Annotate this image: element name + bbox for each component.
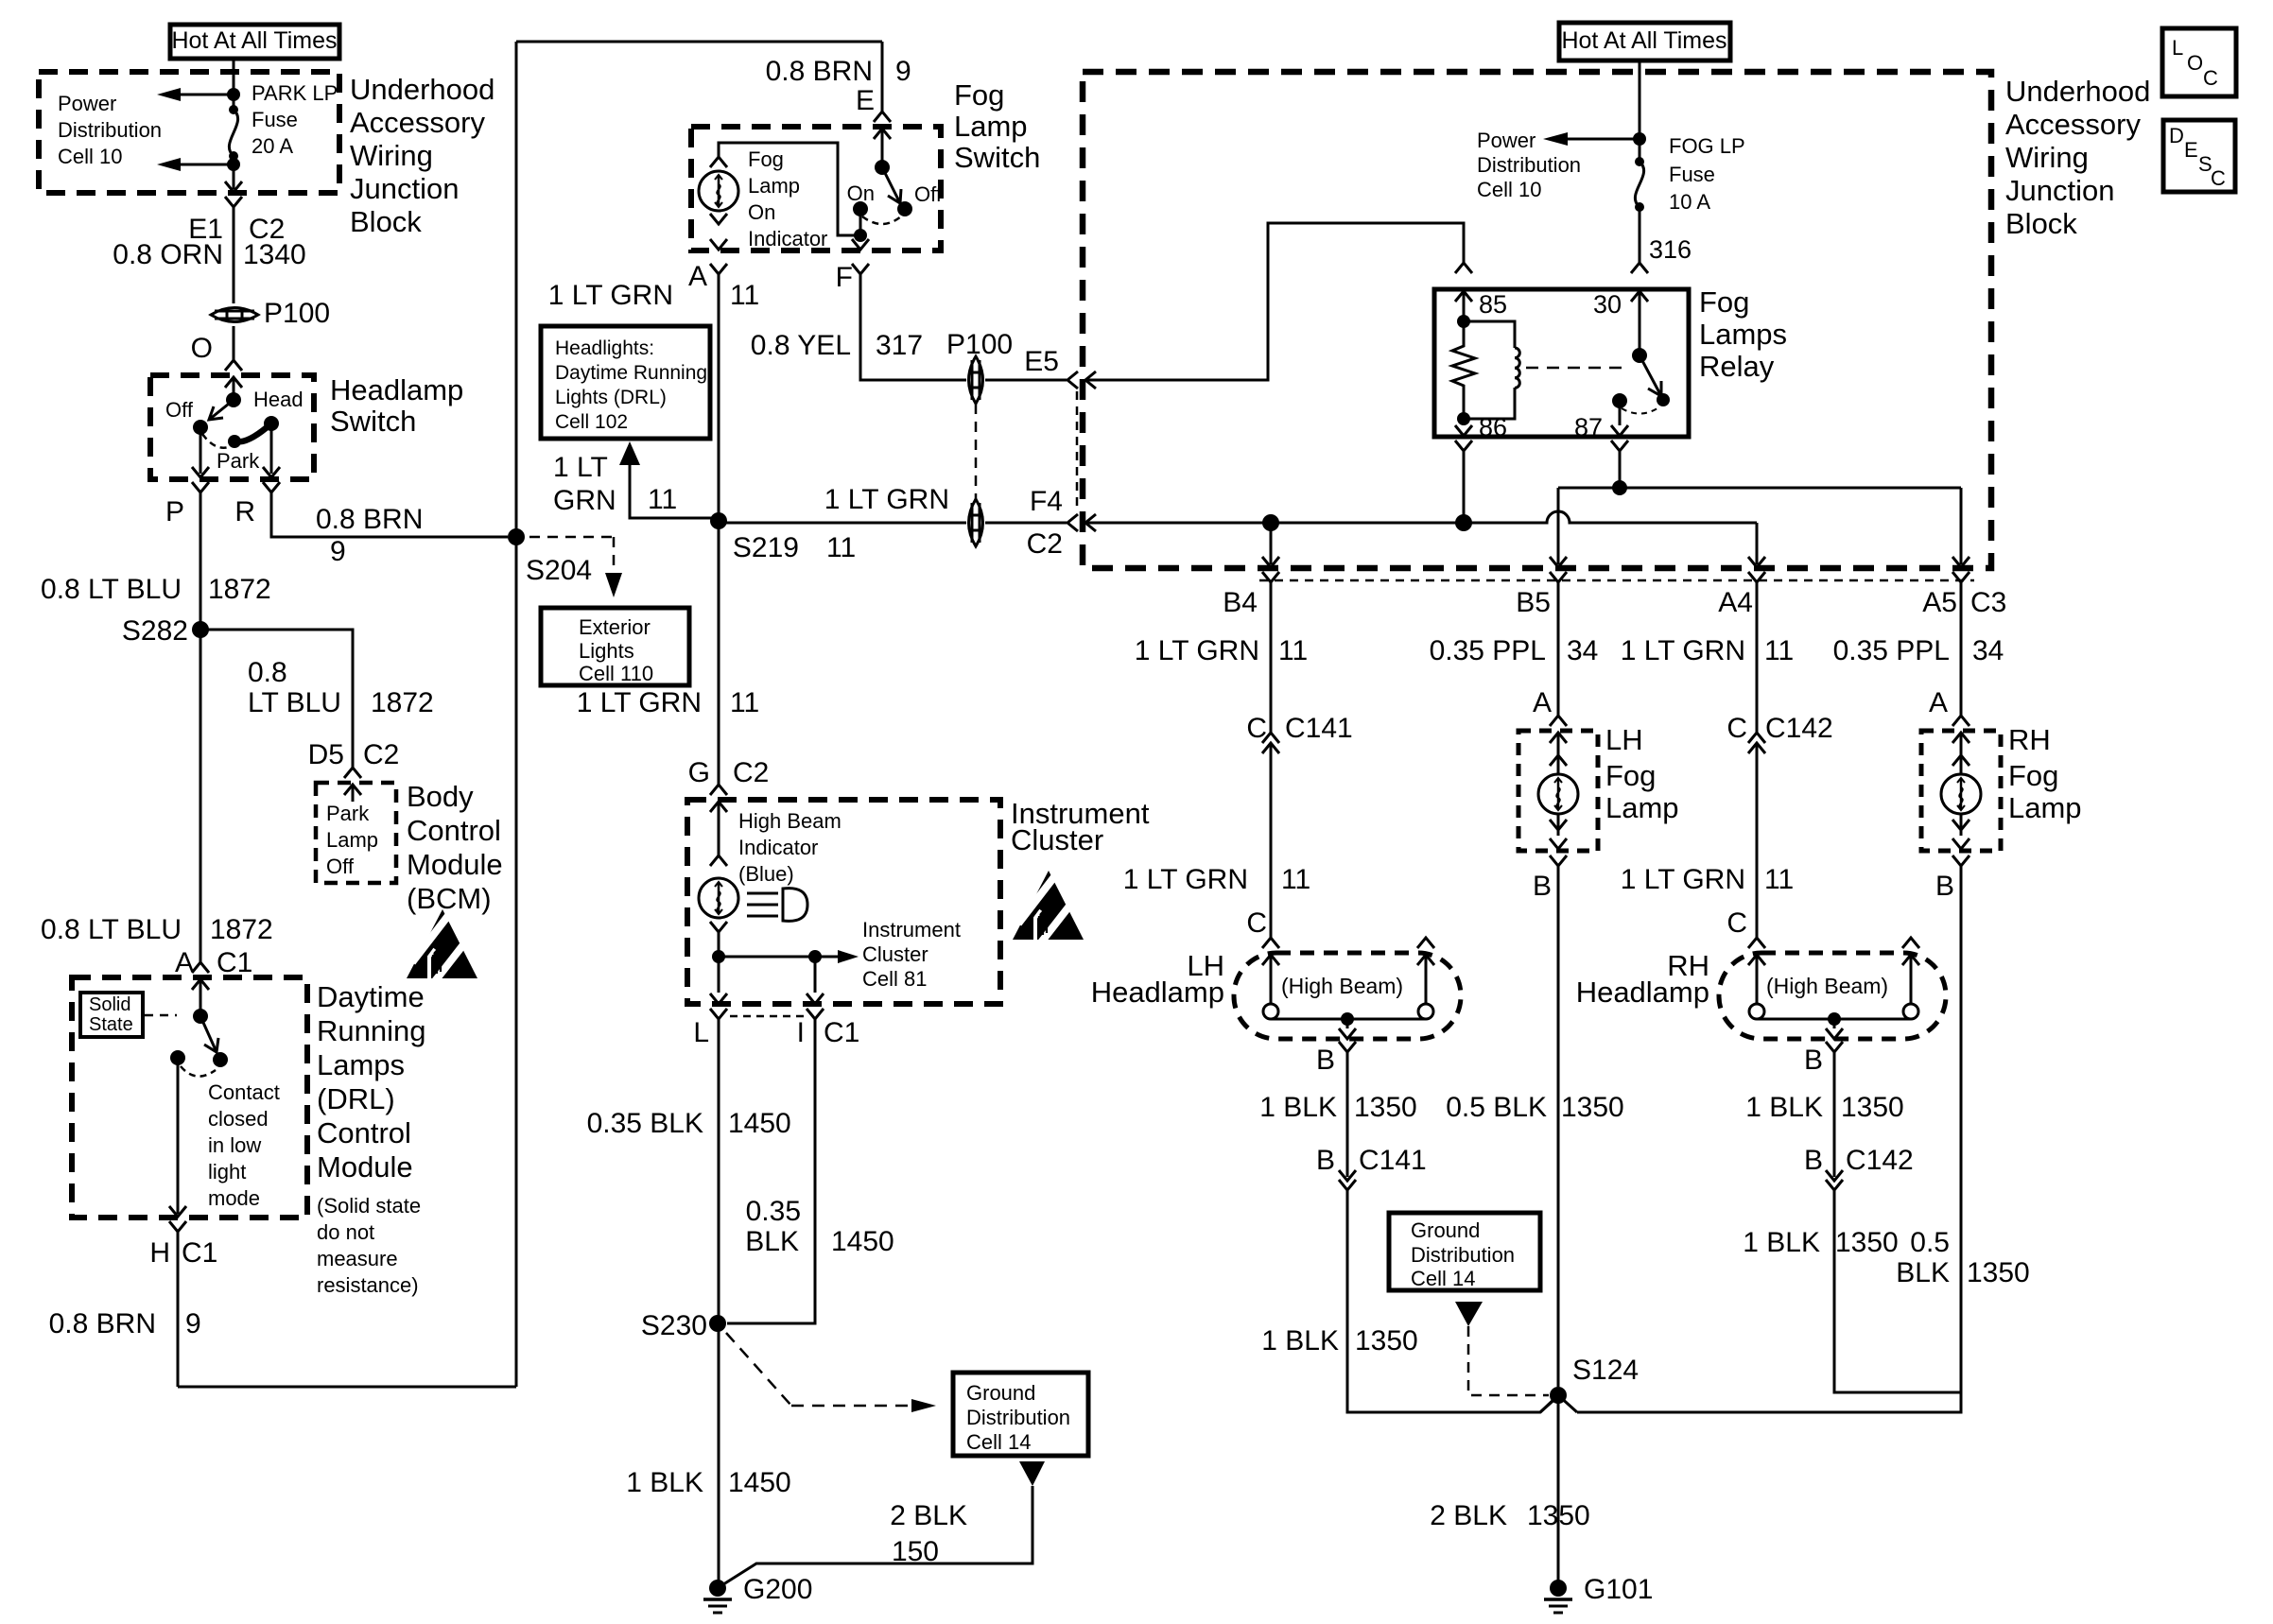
- svg-text:317: 317: [876, 330, 923, 361]
- connector: B exit RH fog: [1952, 855, 1969, 866]
- svg-text:measure: measure: [317, 1247, 398, 1270]
- wire: RH filaments: [1757, 955, 1911, 1019]
- svg-text:Cell 102: Cell 102: [555, 411, 628, 433]
- svg-text:11: 11: [730, 280, 759, 311]
- connector: LH fog socket bottom: [1550, 820, 1567, 830]
- dashed travel arc (fog switch): [862, 216, 901, 224]
- dashed travel arc (headlamp switch): [202, 434, 229, 448]
- svg-text:C: C: [1726, 713, 1747, 744]
- svg-text:Fog: Fog: [2008, 759, 2058, 792]
- svg-text:B: B: [1316, 1045, 1335, 1076]
- svg-text:9: 9: [330, 536, 346, 567]
- wire: A5 to RH fog lamp: [1960, 582, 1963, 716]
- wire: LH B exit stub: [1346, 1019, 1349, 1028]
- svg-text:1 LT GRN: 1 LT GRN: [1621, 635, 1745, 666]
- wire: pin85 shaft: [1463, 291, 1466, 321]
- svg-text:C141: C141: [1359, 1145, 1427, 1176]
- wire: R output inside switch: [270, 423, 273, 474]
- svg-text:FOG LP: FOG LP: [1669, 134, 1745, 158]
- connector: relay pin 87: [1611, 425, 1628, 436]
- arrow into DRL cell box: [619, 441, 640, 465]
- connector: L exit: [710, 993, 727, 1004]
- wire: pin 86 down to LT GRN bus: [1463, 451, 1466, 523]
- relay coil resistor: [1452, 321, 1475, 419]
- svg-text:Distribution: Distribution: [1411, 1243, 1515, 1267]
- svg-text:B5: B5: [1516, 587, 1551, 618]
- svg-text:0.35 PPL: 0.35 PPL: [1833, 635, 1950, 666]
- svg-text:C141: C141: [1285, 713, 1353, 744]
- svg-text:B: B: [1316, 1145, 1335, 1176]
- svg-text:Lights: Lights: [579, 639, 634, 663]
- box: LOC: [2162, 28, 2236, 96]
- dashed box: Fog Lamp Switch: [691, 127, 941, 251]
- svg-text:Headlights:: Headlights:: [555, 337, 654, 359]
- svg-text:1 LT GRN: 1 LT GRN: [577, 687, 702, 718]
- svg-text:Fog: Fog: [1699, 285, 1749, 319]
- wire: L to G200 (0.35 BLK / 1 BLK): [718, 1019, 720, 1588]
- wire: RH fog pin stub: [1960, 733, 1963, 836]
- svg-text:Accessory: Accessory: [350, 106, 485, 139]
- svg-text:Ground: Ground: [966, 1381, 1035, 1405]
- svg-text:Module: Module: [407, 848, 503, 881]
- box: Solid State: [80, 993, 143, 1037]
- svg-text:O: O: [2187, 51, 2203, 75]
- wire: top 0.8 BRN run to fog switch E: [516, 41, 882, 43]
- svg-text:1350: 1350: [1967, 1257, 2030, 1288]
- wire: BCM pin stub: [352, 785, 355, 802]
- svg-text:light: light: [208, 1160, 246, 1183]
- svg-text:S230: S230: [641, 1310, 707, 1341]
- wire: I to S230: [727, 1019, 815, 1323]
- wire: B4 drop: [1270, 523, 1273, 564]
- svg-text:BLK: BLK: [745, 1226, 799, 1257]
- svg-text:11: 11: [1281, 864, 1310, 895]
- svg-text:Lamp: Lamp: [326, 828, 378, 852]
- bulb: LH high filament: [1418, 1004, 1433, 1019]
- svg-text:2 BLK: 2 BLK: [1430, 1500, 1507, 1531]
- wire: RH B to 0.5 BLK wire: [1834, 1190, 1961, 1392]
- svg-text:1 BLK: 1 BLK: [626, 1467, 703, 1498]
- dashed box: LH Fog Lamp: [1518, 731, 1598, 851]
- dashed capsule: LH Headlamp: [1234, 953, 1461, 1039]
- dashed relay travel arc: [1622, 406, 1660, 414]
- svg-text:1 LT GRN: 1 LT GRN: [548, 280, 673, 311]
- svg-text:Control: Control: [407, 814, 501, 847]
- svg-text:11: 11: [730, 687, 759, 718]
- wire: pin30 shaft to pivot: [1639, 291, 1641, 355]
- wire: arrow tap upper to Power Distribution: [181, 94, 234, 96]
- svg-text:2 BLK: 2 BLK: [890, 1500, 967, 1531]
- svg-text:Control: Control: [317, 1116, 411, 1149]
- svg-text:1350: 1350: [1561, 1092, 1624, 1123]
- svg-text:Park: Park: [326, 802, 370, 825]
- wire: R to S204 (0.8 BRN 9): [271, 492, 508, 537]
- wire: P100 to E5: [985, 379, 1067, 382]
- connector: A into DRL module: [192, 962, 209, 973]
- wire: RH fog B down (0.5 BLK 1350): [1577, 866, 1961, 1412]
- svg-text:1350: 1350: [1354, 1092, 1417, 1123]
- svg-text:PARK LP: PARK LP: [252, 81, 338, 105]
- wire: P wire 0.8 LT BLU: [200, 492, 202, 962]
- svg-text:P100: P100: [946, 329, 1013, 360]
- connector: D5 into BCM: [344, 768, 361, 778]
- svg-text:0.35 BLK: 0.35 BLK: [587, 1108, 703, 1139]
- svg-text:F: F: [836, 262, 853, 293]
- svg-text:C: C: [2203, 66, 2218, 90]
- dashed box: Power Distribution Cell 10 (left): [39, 72, 339, 193]
- wire: On contact down to F junction: [859, 209, 862, 235]
- svg-text:1350: 1350: [1355, 1325, 1418, 1356]
- svg-text:C2: C2: [363, 739, 399, 770]
- box: Fog Lamps Relay: [1434, 289, 1689, 437]
- svg-text:9: 9: [895, 56, 911, 87]
- connector: P exit: [192, 467, 209, 477]
- wire: LT GRN bus (F4 to A4) with hop: [1085, 511, 1757, 564]
- svg-text:(High Beam): (High Beam): [1281, 974, 1403, 998]
- dashed grommet link P100: [975, 404, 978, 499]
- node S219 splice: [710, 512, 727, 529]
- svg-text:D5: D5: [308, 739, 344, 770]
- svg-text:Indicator: Indicator: [748, 227, 827, 251]
- svg-text:1 LT GRN: 1 LT GRN: [1135, 635, 1259, 666]
- svg-text:Switch: Switch: [954, 141, 1040, 174]
- connector: C into LH headlamp: [1262, 938, 1279, 948]
- svg-text:C: C: [1726, 907, 1747, 939]
- fuse FOG LP 10 A: [1635, 157, 1644, 166]
- svg-text:do not: do not: [317, 1220, 374, 1244]
- connector: R exit: [263, 467, 280, 477]
- svg-text:Module: Module: [317, 1150, 413, 1183]
- svg-text:C: C: [1246, 713, 1267, 744]
- svg-text:C: C: [1246, 907, 1267, 939]
- contact bar Park-Head (thick arc): [235, 423, 271, 441]
- svg-text:S282: S282: [122, 615, 188, 647]
- svg-text:1 LT GRN: 1 LT GRN: [824, 484, 949, 515]
- wire: S219 to F4 (1 LT GRN 11): [719, 522, 1067, 525]
- svg-text:1450: 1450: [728, 1108, 791, 1139]
- svg-text:11: 11: [648, 484, 677, 515]
- svg-text:Off: Off: [914, 182, 943, 206]
- node: junction right feed arrow tap: [1633, 132, 1646, 146]
- svg-text:Daytime Running: Daytime Running: [555, 362, 707, 384]
- svg-text:LH: LH: [1605, 723, 1643, 756]
- svg-text:Underhood: Underhood: [350, 73, 495, 106]
- connector: B exit RH headlamp: [1826, 1028, 1843, 1039]
- svg-text:P100: P100: [264, 298, 330, 329]
- connector: A into RH fog lamp: [1952, 716, 1969, 726]
- svg-text:State: State: [89, 1014, 133, 1035]
- connector P100 grommet (E5 wire): [969, 356, 983, 404]
- svg-text:E5: E5: [1024, 346, 1059, 377]
- svg-text:1 BLK: 1 BLK: [1261, 1325, 1339, 1356]
- svg-text:Hot At All Times: Hot At All Times: [171, 27, 337, 54]
- connector: A4 exit: [1748, 557, 1765, 567]
- connector: indicator socket bottom (cluster): [710, 922, 727, 932]
- wire: fog switch pole: [881, 129, 884, 167]
- svg-text:1 LT GRN: 1 LT GRN: [1123, 864, 1248, 895]
- svg-text:86: 86: [1479, 413, 1507, 441]
- svg-text:Fog: Fog: [1605, 759, 1656, 792]
- svg-text:0.35: 0.35: [746, 1196, 801, 1227]
- svg-text:0.8 BRN: 0.8 BRN: [316, 504, 423, 535]
- svg-text:H: H: [149, 1237, 170, 1269]
- svg-text:R: R: [234, 496, 255, 527]
- ESD symbol (cluster): [1013, 871, 1084, 942]
- connector C142 (A4): [1748, 733, 1765, 743]
- arrow+dashed: ground cell to S124: [1455, 1302, 1483, 1326]
- dashed box: Instrument Cluster: [687, 800, 1000, 1004]
- wire: arrow tap lower to Power Distribution: [181, 164, 234, 166]
- svg-text:34: 34: [1972, 635, 2004, 666]
- svg-text:1 BLK: 1 BLK: [1259, 1092, 1337, 1123]
- svg-text:Lamp: Lamp: [748, 174, 800, 198]
- node S282 splice: [192, 621, 209, 638]
- svg-text:1350: 1350: [1835, 1227, 1899, 1258]
- wire: A4 to C142: [1756, 582, 1759, 733]
- wire: indicator loop (to fog lamp on indicator): [719, 143, 860, 235]
- svg-text:C: C: [2211, 166, 2226, 190]
- svg-text:Switch: Switch: [330, 405, 416, 438]
- connector: RH headlamp unused pin: [1902, 938, 1919, 948]
- box: Hot At All Times (left): [170, 25, 339, 59]
- svg-text:A5: A5: [1922, 587, 1957, 618]
- svg-text:A: A: [1929, 687, 1948, 718]
- svg-text:Hot At All Times: Hot At All Times: [1561, 27, 1726, 54]
- node S230 splice: [709, 1315, 726, 1332]
- node: RH headlamp B junction: [1828, 1012, 1841, 1026]
- svg-text:Solid: Solid: [89, 994, 130, 1015]
- svg-text:20 A: 20 A: [252, 134, 293, 158]
- svg-text:I: I: [797, 1017, 805, 1048]
- svg-text:1 BLK: 1 BLK: [1743, 1227, 1820, 1258]
- high beam icon: [747, 893, 778, 916]
- node: junction B4 tap: [1262, 514, 1279, 531]
- svg-text:Distribution: Distribution: [1477, 153, 1581, 177]
- svg-text:mode: mode: [208, 1186, 260, 1210]
- svg-text:85: 85: [1479, 290, 1507, 319]
- arrow: ground cell to 2 BLK 150: [1019, 1461, 1045, 1486]
- wire: RH B to C142: [1833, 1052, 1836, 1177]
- svg-text:Cell 14: Cell 14: [1411, 1267, 1475, 1290]
- svg-text:Lamp: Lamp: [954, 110, 1028, 143]
- connector: indicator socket top: [710, 157, 727, 167]
- svg-text:A: A: [1533, 687, 1552, 718]
- wire: P100 to headlamp switch: [233, 326, 235, 360]
- svg-text:On: On: [748, 200, 775, 224]
- svg-text:34: 34: [1567, 635, 1598, 666]
- svg-text:(Blue): (Blue): [738, 862, 794, 886]
- svg-text:316: 316: [1649, 235, 1692, 264]
- svg-text:11: 11: [1278, 635, 1308, 666]
- wire: C142 to RH headlamp C: [1756, 743, 1759, 938]
- wire: DRL pole: [200, 979, 202, 1016]
- svg-text:Daytime: Daytime: [317, 980, 425, 1013]
- svg-text:B: B: [1804, 1045, 1823, 1076]
- wire: C141 to LH headlamp C: [1270, 743, 1273, 938]
- svg-text:1872: 1872: [210, 914, 273, 945]
- dashed connector face B4-A5: [1259, 579, 1974, 582]
- svg-text:S124: S124: [1572, 1355, 1639, 1386]
- svg-text:Park: Park: [217, 449, 260, 473]
- wire: fuse to box exit: [233, 156, 235, 189]
- wire: RH B exit stub: [1833, 1019, 1836, 1028]
- svg-text:P: P: [165, 496, 184, 527]
- box: DESC: [2163, 120, 2235, 192]
- node: junction 86-bus: [1455, 514, 1472, 531]
- svg-text:Instrument: Instrument: [862, 918, 961, 942]
- node: Head contact: [264, 416, 279, 431]
- svg-text:30: 30: [1593, 290, 1622, 319]
- svg-text:L: L: [2172, 36, 2183, 60]
- svg-text:1340: 1340: [243, 239, 306, 270]
- wire: LH fog pin stub: [1557, 733, 1560, 836]
- connector: relay pin 86: [1455, 425, 1472, 436]
- svg-text:87: 87: [1574, 413, 1603, 441]
- connector: A exit of fog switch (indicator): [710, 264, 727, 274]
- connector P100 grommet (on ORN wire): [211, 308, 258, 322]
- svg-text:Indicator: Indicator: [738, 836, 818, 859]
- ground G101: [1550, 1580, 1567, 1597]
- fog switch blade: [882, 167, 900, 203]
- wire: arrow tap to Power Distribution (right): [1568, 138, 1640, 141]
- connector: indicator socket top (cluster): [710, 855, 727, 866]
- wire: right feed from Hot At All Times: [1639, 60, 1641, 162]
- svg-text:Block: Block: [350, 205, 422, 238]
- svg-text:C142: C142: [1765, 713, 1833, 744]
- svg-text:B4: B4: [1223, 587, 1258, 618]
- fuse PARK LP 20 A: [229, 105, 238, 114]
- svg-text:Head: Head: [253, 388, 304, 411]
- svg-text:Cell 81: Cell 81: [862, 967, 927, 991]
- svg-text:10 A: 10 A: [1669, 190, 1710, 214]
- connector: H exit of DRL: [169, 1206, 186, 1217]
- node: On contact (fog switch): [853, 201, 868, 216]
- connector: B5 exit: [1550, 557, 1567, 567]
- svg-text:1872: 1872: [208, 574, 271, 605]
- arrow: to Instrument Cluster Cell 81: [815, 956, 838, 959]
- svg-text:9: 9: [185, 1308, 201, 1339]
- RH fog lamp bulb: [1941, 774, 1981, 814]
- svg-text:E: E: [856, 85, 875, 116]
- connector: O into headlamp switch: [225, 360, 242, 371]
- svg-text:Power: Power: [1477, 129, 1536, 152]
- dashed box: Underhood Accessory Wiring Junction Block (right): [1083, 72, 1991, 568]
- wire: S124 diagonals: [1540, 1395, 1577, 1412]
- svg-text:C3: C3: [1970, 587, 2006, 618]
- svg-text:B: B: [1935, 871, 1954, 902]
- svg-text:1450: 1450: [831, 1226, 894, 1257]
- wire: LH filaments: [1271, 955, 1426, 1019]
- svg-text:1872: 1872: [371, 687, 434, 718]
- connector: F exit of fog switch: [852, 239, 869, 250]
- svg-text:G101: G101: [1584, 1574, 1653, 1605]
- wire: A to S219 (1 LT GRN 11): [718, 274, 720, 785]
- svg-text:Cell 110: Cell 110: [579, 662, 653, 685]
- node: Off contact: [193, 420, 208, 435]
- node S124 splice: [1550, 1387, 1567, 1404]
- DRL blade: [200, 1016, 217, 1052]
- svg-text:0.8 BRN: 0.8 BRN: [49, 1308, 156, 1339]
- svg-text:Ground: Ground: [1411, 1218, 1480, 1242]
- connector: RH fog socket bottom: [1952, 820, 1969, 830]
- box: Exterior Lights Cell 110: [541, 608, 689, 685]
- svg-text:Headlamp: Headlamp: [330, 373, 463, 406]
- svg-text:Distribution: Distribution: [966, 1406, 1070, 1429]
- connector: E5 terminal pair: [1067, 371, 1078, 389]
- svg-text:0.8 LT BLU: 0.8 LT BLU: [41, 914, 182, 945]
- svg-text:LT BLU: LT BLU: [248, 687, 341, 718]
- svg-text:C2: C2: [733, 757, 769, 788]
- connector: LH fog socket: [1550, 755, 1567, 766]
- wire: DRL contact to H exit: [177, 1058, 180, 1214]
- svg-text:Junction: Junction: [2005, 174, 2114, 207]
- dashed pointer S204 to Exterior Lights cell: [529, 537, 614, 573]
- wire: feed from Hot At All Times down to fuse: [233, 59, 235, 110]
- wire: B5 to LH fog lamp: [1557, 582, 1560, 716]
- svg-text:C2: C2: [1027, 528, 1063, 560]
- wire: pin 86 exit: [1463, 419, 1466, 425]
- wire: branch to I: [719, 956, 815, 959]
- svg-text:Lamps: Lamps: [1699, 318, 1787, 351]
- connector: B exit LH fog: [1550, 855, 1567, 866]
- svg-text:0.35 PPL: 0.35 PPL: [1430, 635, 1546, 666]
- connector: B exit LH headlamp: [1339, 1028, 1356, 1039]
- svg-text:Headlamp: Headlamp: [1091, 976, 1224, 1009]
- svg-text:closed: closed: [208, 1107, 269, 1131]
- wire: I drop in cluster: [814, 957, 817, 993]
- svg-text:0.8 BRN: 0.8 BRN: [766, 56, 873, 87]
- svg-text:Underhood: Underhood: [2005, 75, 2150, 108]
- wire: indicator to L junction: [718, 932, 720, 957]
- ground G200: [709, 1580, 726, 1597]
- wire: B5 through hop: [1557, 512, 1560, 534]
- svg-text:Headlamp: Headlamp: [1576, 976, 1709, 1009]
- svg-text:Cluster: Cluster: [1011, 823, 1103, 856]
- wire: LH B to S124: [1347, 1190, 1558, 1412]
- connector: F4 terminal pair: [1067, 514, 1078, 531]
- svg-text:A: A: [688, 261, 707, 292]
- svg-text:Contact: Contact: [208, 1080, 280, 1104]
- wire: H to bottom corner (0.8 BRN 9): [177, 1232, 180, 1387]
- svg-text:Junction: Junction: [350, 172, 459, 205]
- svg-text:150: 150: [892, 1536, 939, 1567]
- svg-text:Fog: Fog: [748, 147, 784, 171]
- svg-text:Lights (DRL): Lights (DRL): [555, 387, 667, 408]
- wire: fog bus (pin87 to B5 and A5): [1558, 488, 1961, 564]
- svg-text:0.5: 0.5: [1910, 1227, 1950, 1258]
- svg-text:Wiring: Wiring: [350, 139, 433, 172]
- wire: fuse to relay pin 30 (ckt 316): [1639, 207, 1641, 263]
- svg-text:Cell 14: Cell 14: [966, 1430, 1031, 1454]
- connector: I exit: [807, 993, 824, 1004]
- node: junction lower arrow tap: [227, 158, 240, 171]
- bulb: RH low filament: [1749, 1004, 1764, 1019]
- wire: LH B to C141: [1346, 1052, 1349, 1177]
- svg-text:0.8 ORN: 0.8 ORN: [113, 239, 223, 270]
- svg-text:1350: 1350: [1841, 1092, 1904, 1123]
- svg-text:11: 11: [1764, 864, 1794, 895]
- box: Hot At All Times (right): [1559, 23, 1730, 60]
- svg-text:O: O: [191, 333, 213, 364]
- connector: indicator socket bottom: [710, 214, 727, 224]
- svg-text:Power: Power: [58, 92, 116, 115]
- wire: high beam indicator feed: [718, 802, 720, 855]
- svg-text:A: A: [175, 947, 194, 978]
- svg-text:C142: C142: [1846, 1145, 1914, 1176]
- relay blade: [1640, 355, 1661, 396]
- relay coil: [1464, 321, 1515, 348]
- node: relay 87 contact: [1612, 393, 1627, 408]
